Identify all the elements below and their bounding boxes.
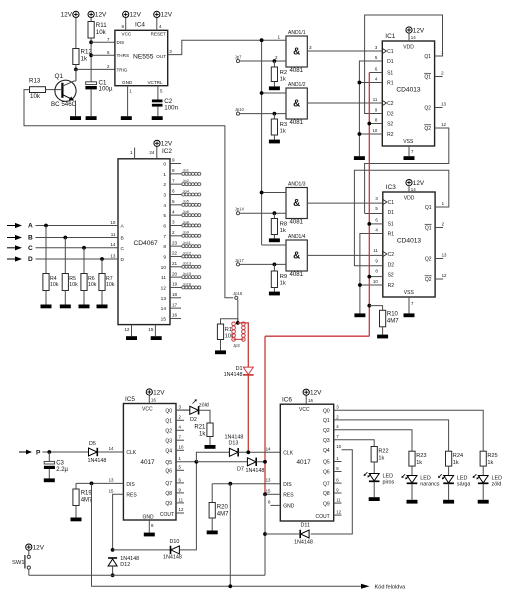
- wire AND1/4 out to IC3 C2: [307, 254, 383, 256]
- wire R11 to C1: [90, 38, 92, 83]
- svg-text:1: 1: [163, 172, 166, 178]
- wire IC2 channel 14 stub: [161, 302, 181, 312]
- wire R10 to ground: [382, 327, 384, 335]
- resistor R23: [409, 451, 427, 466]
- svg-text:7: 7: [172, 178, 175, 183]
- wire red set line vertical: [265, 73, 369, 337]
- node Jp14: [235, 207, 245, 215]
- svg-text:1k: 1k: [280, 76, 286, 82]
- counter IC5 4017: [109, 396, 197, 520]
- wire IC2 pin 24: [149, 147, 156, 159]
- wire R8 tap: [273, 213, 275, 218]
- svg-text:1k: 1k: [487, 460, 493, 466]
- wire IC1 Q2bar to IC3 D1: [365, 128, 449, 214]
- diode D7 1N4148: [237, 458, 264, 474]
- jumper Jp13 channel 10: [161, 261, 201, 271]
- svg-text:Q8: Q8: [165, 491, 172, 497]
- wire R24 to LED: [448, 466, 450, 475]
- wire input A: [36, 220, 125, 230]
- node bus AND1/2: [260, 91, 264, 95]
- svg-text:IC3: IC3: [386, 184, 396, 191]
- capacitor C1: [85, 79, 112, 92]
- flipflop IC3 CD4013: [373, 184, 447, 297]
- svg-text:DIS: DIS: [117, 40, 125, 45]
- svg-text:Jp4: Jp4: [183, 188, 190, 193]
- svg-text:VSS: VSS: [404, 290, 415, 296]
- svg-text:4017: 4017: [140, 459, 155, 466]
- svg-text:6: 6: [163, 223, 166, 229]
- svg-text:Q2: Q2: [424, 126, 431, 132]
- gate AND1/4 4081: [286, 234, 307, 278]
- svg-text:TRIG: TRIG: [117, 67, 128, 72]
- node Jp17: [235, 258, 245, 266]
- svg-text:2.2µ: 2.2µ: [56, 467, 68, 473]
- resistor R4: [43, 274, 59, 291]
- svg-text:9: 9: [172, 158, 175, 163]
- svg-text:1: 1: [130, 150, 133, 155]
- svg-text:4081: 4081: [290, 67, 304, 74]
- resistor R2: [271, 67, 287, 82]
- svg-text:0: 0: [163, 162, 166, 168]
- jumper Jp11 channel 8: [163, 240, 200, 250]
- svg-text:10k: 10k: [88, 282, 97, 288]
- power 12V rail for R11: [88, 11, 107, 18]
- wire R12 to TRIG node: [75, 65, 77, 80]
- svg-text:R2: R2: [388, 283, 395, 289]
- svg-text:12: 12: [442, 273, 447, 278]
- svg-text:100µ: 100µ: [99, 86, 113, 93]
- svg-text:Jp13: Jp13: [183, 261, 192, 266]
- jumper Jp4 channel 3: [163, 188, 200, 198]
- gate AND1/3 4081: [286, 182, 307, 226]
- ground R3: [269, 140, 280, 144]
- svg-text:11: 11: [179, 497, 184, 502]
- svg-text:24: 24: [149, 150, 155, 155]
- resistor R19: [73, 489, 93, 506]
- wire AND1/2 out to IC1 C2: [307, 102, 382, 104]
- svg-text:12: 12: [124, 327, 130, 332]
- wire D7 to red chain: [256, 461, 265, 463]
- svg-text:R7: R7: [106, 276, 113, 282]
- svg-text:Jp15: Jp15: [183, 271, 192, 276]
- svg-text:R2: R2: [280, 70, 288, 76]
- svg-text:Q1: Q1: [55, 73, 64, 80]
- svg-text:NE555: NE555: [133, 54, 154, 61]
- svg-text:Q1: Q1: [424, 75, 431, 81]
- svg-text:1k: 1k: [416, 460, 422, 466]
- wire IC4 OUT pin 3: [168, 40, 286, 54]
- svg-text:Q1: Q1: [425, 205, 432, 211]
- node DIS junction: [89, 40, 93, 44]
- input C arrow: [7, 245, 33, 252]
- LED sárga: [438, 474, 470, 487]
- svg-text:D12: D12: [120, 562, 130, 568]
- ground R5: [60, 305, 71, 309]
- wire Jp10 to gate: [240, 113, 286, 115]
- svg-text:Jp11: Jp11: [183, 240, 192, 245]
- svg-text:12: 12: [441, 122, 446, 127]
- diode D5 1N4148: [88, 441, 107, 464]
- ground R9: [269, 292, 280, 296]
- svg-text:10k: 10k: [30, 93, 41, 100]
- svg-text:100n: 100n: [164, 104, 178, 111]
- ground C3: [44, 478, 55, 482]
- svg-text:&: &: [293, 198, 300, 209]
- svg-text:5: 5: [163, 213, 166, 219]
- svg-text:1: 1: [277, 34, 280, 39]
- node bus AND1/1: [260, 38, 264, 42]
- LED D2 zold: [176, 399, 209, 423]
- wire P to C3: [48, 452, 50, 462]
- LED piros: [364, 472, 395, 485]
- svg-text:4M7: 4M7: [387, 319, 399, 325]
- svg-text:C3: C3: [56, 461, 64, 467]
- wire D10 line: [113, 549, 171, 551]
- wire IC6 to R25: [334, 410, 484, 451]
- svg-text:14: 14: [110, 242, 116, 247]
- svg-text:Q3: Q3: [323, 438, 330, 444]
- resistor R1: [217, 319, 237, 340]
- wire IC2 pin 15 ground: [148, 325, 155, 337]
- svg-text:11: 11: [373, 97, 378, 102]
- svg-text:12V: 12V: [61, 12, 73, 19]
- svg-text:Q5: Q5: [323, 460, 330, 466]
- node Q5 junction: [195, 460, 199, 464]
- resistor R7: [99, 274, 115, 291]
- svg-text:10k: 10k: [106, 282, 115, 288]
- wire D10 to Q5 node: [179, 462, 196, 550]
- svg-text:D10: D10: [170, 539, 180, 545]
- node IC3 R2 junction: [358, 283, 362, 287]
- resistor R11: [88, 22, 107, 39]
- wire Jp14 to gate: [240, 212, 286, 214]
- svg-text:R21: R21: [194, 425, 206, 431]
- wire IC3 VSS pin 7 to ground: [409, 297, 414, 313]
- svg-text:THRS: THRS: [117, 53, 130, 58]
- wire IC6 RES entry: [265, 493, 280, 495]
- wire 12V to R12: [75, 18, 77, 49]
- svg-text:12V: 12V: [161, 12, 173, 19]
- wire C1 to ground: [90, 89, 92, 116]
- svg-text:IC5: IC5: [125, 396, 135, 403]
- wire clock bus vertical: [261, 40, 263, 245]
- wire R2 tap: [273, 61, 275, 67]
- wire R13 left to long run: [24, 90, 233, 298]
- resistor R3: [271, 119, 288, 135]
- resistor R12: [73, 49, 93, 65]
- svg-text:15: 15: [148, 327, 154, 332]
- svg-text:Jp6: Jp6: [183, 209, 190, 214]
- node IC6 DIS junction: [228, 482, 232, 486]
- svg-text:C2: C2: [387, 101, 394, 107]
- ground Q1 emitter: [70, 116, 81, 120]
- wire D12 to SW rail: [112, 566, 114, 575]
- svg-text:1N4148: 1N4148: [225, 434, 244, 440]
- ground R7: [97, 305, 108, 309]
- svg-text:IC6: IC6: [282, 397, 292, 404]
- wire IC4 RESET pin 4: [157, 18, 162, 31]
- svg-text:23: 23: [172, 240, 178, 245]
- svg-text:2: 2: [172, 230, 175, 235]
- svg-text:Q0: Q0: [323, 409, 330, 415]
- svg-text:S2: S2: [388, 273, 394, 279]
- svg-text:12V: 12V: [153, 389, 165, 396]
- node Jp10: [235, 107, 245, 115]
- ground R8: [269, 238, 280, 242]
- wire IC1 VSS pin 7 to ground: [409, 146, 414, 156]
- svg-text:10k: 10k: [50, 282, 59, 288]
- svg-text:15: 15: [109, 488, 114, 493]
- ground R4: [41, 305, 52, 309]
- diode D1 1N4148: [224, 366, 254, 378]
- svg-text:R20: R20: [217, 505, 229, 511]
- wire C2 to ground: [157, 107, 159, 117]
- svg-text:D1: D1: [387, 59, 394, 65]
- svg-text:10: 10: [161, 265, 167, 271]
- jumper Jp2 channel 2: [163, 178, 200, 188]
- wire THRS: [91, 50, 115, 55]
- resistor R5: [62, 274, 78, 291]
- svg-text:14: 14: [161, 306, 167, 312]
- node D11 junction: [263, 532, 267, 536]
- svg-text:11: 11: [336, 498, 341, 503]
- svg-text:10: 10: [373, 279, 378, 284]
- node IC5 DIS junction: [90, 482, 94, 486]
- svg-text:19: 19: [172, 282, 178, 287]
- svg-text:Jp18: Jp18: [233, 291, 243, 296]
- LED zöld: [473, 474, 502, 487]
- svg-text:R1: R1: [225, 327, 232, 333]
- svg-text:R1: R1: [387, 81, 394, 87]
- wire R2 to ground: [273, 82, 275, 87]
- svg-text:10: 10: [110, 220, 116, 225]
- svg-text:C1: C1: [388, 200, 395, 206]
- resistor R8: [271, 219, 288, 235]
- wire IC3 S1 stub: [369, 223, 383, 225]
- gate AND1/2 4081: [286, 82, 307, 126]
- svg-text:1N4148: 1N4148: [246, 468, 265, 474]
- mux IC2 CD4067 box: [118, 148, 172, 325]
- svg-text:13: 13: [110, 253, 116, 258]
- svg-text:OUT: OUT: [156, 54, 166, 59]
- wire 12V to R11: [90, 18, 92, 22]
- svg-text:6: 6: [172, 189, 175, 194]
- svg-text:1k: 1k: [280, 228, 286, 234]
- ground IC5 GND: [144, 533, 155, 537]
- svg-text:B: B: [28, 235, 33, 242]
- svg-text:Q3: Q3: [165, 438, 172, 444]
- power 12V for IC6: [303, 389, 322, 396]
- wire Jp18 down to R1 node: [237, 300, 239, 323]
- svg-text:piros: piros: [383, 479, 395, 485]
- svg-text:C: C: [121, 246, 125, 252]
- svg-text:14: 14: [411, 35, 416, 40]
- wire RES chain down: [264, 494, 266, 575]
- svg-text:R13: R13: [29, 77, 41, 84]
- resistor R20: [209, 503, 229, 519]
- svg-text:1k: 1k: [453, 460, 459, 466]
- wire IC6 DIS line: [212, 483, 280, 485]
- svg-text:1k: 1k: [81, 56, 88, 63]
- svg-text:1N4148: 1N4148: [294, 540, 313, 546]
- node input D junction: [100, 257, 104, 261]
- svg-text:5: 5: [172, 199, 175, 204]
- diode D12 1N4148: [108, 556, 139, 568]
- power 12V for IC4 RESET: [154, 11, 173, 18]
- svg-text:Q9: Q9: [323, 501, 330, 507]
- svg-text:Jp8: Jp8: [183, 219, 190, 224]
- svg-text:1k: 1k: [280, 280, 286, 286]
- node DIS rail junction: [228, 584, 232, 588]
- svg-text:10: 10: [336, 444, 341, 449]
- node R8 junction: [273, 211, 277, 215]
- jumper Jp8 channel 6: [163, 219, 200, 229]
- svg-text:13: 13: [109, 478, 114, 483]
- ground IC1 R1R2: [354, 156, 365, 160]
- node P junction: [47, 450, 51, 454]
- svg-text:IC4: IC4: [135, 21, 145, 28]
- wire AND1/3 out to IC3 C1: [307, 202, 383, 204]
- wire IC4 VCTRL pin 5: [158, 86, 163, 100]
- node D7 red junction: [263, 460, 267, 464]
- wire IC3 R1 R2 to ground: [360, 234, 383, 314]
- node R3 junction: [273, 112, 277, 116]
- wire input D: [36, 253, 125, 263]
- wire R20 to ground: [211, 518, 213, 531]
- ground IC4 GND: [121, 116, 132, 120]
- svg-text:21: 21: [172, 261, 178, 266]
- wire IC1 D1 to R1 R2 ground: [359, 61, 382, 156]
- svg-text:VCC: VCC: [122, 32, 132, 37]
- node Jp18: [233, 291, 243, 299]
- svg-text:R6: R6: [88, 276, 95, 282]
- resistor R13: [29, 77, 46, 100]
- wire input B: [36, 232, 124, 242]
- svg-text:Jp16: Jp16: [183, 281, 192, 286]
- svg-text:COUT: COUT: [160, 512, 174, 518]
- svg-text:R4: R4: [50, 276, 57, 282]
- wire IC1 S1 stub: [369, 72, 382, 74]
- svg-text:AND1/2: AND1/2: [288, 82, 306, 88]
- svg-text:12: 12: [336, 509, 341, 514]
- svg-text:CLK: CLK: [126, 450, 136, 456]
- ground R10: [377, 335, 388, 339]
- wire R19 drop: [75, 483, 77, 489]
- node CLK red junction: [246, 450, 250, 454]
- svg-text:S1: S1: [388, 222, 394, 228]
- resistor R9: [271, 271, 287, 288]
- svg-text:12V: 12V: [161, 141, 173, 148]
- svg-text:RESET: RESET: [151, 32, 167, 37]
- svg-text:Q0: Q0: [165, 408, 172, 414]
- diode D13 1N4148: [225, 434, 244, 456]
- svg-text:Q1: Q1: [424, 54, 431, 60]
- wire Q1 emitter to ground: [75, 101, 77, 117]
- wire Q1 collector: [75, 69, 77, 81]
- svg-text:18: 18: [172, 292, 178, 297]
- svg-text:VDD: VDD: [403, 45, 414, 51]
- svg-text:4081: 4081: [290, 219, 304, 226]
- counter IC6 4017: [266, 397, 342, 521]
- wire IC6 Q4 to D11: [311, 450, 353, 534]
- svg-text:10: 10: [372, 128, 377, 133]
- wire R21 to ground: [209, 437, 211, 446]
- LED narancs: [401, 474, 439, 487]
- wire B to pulldown: [64, 238, 66, 274]
- wire Q5 to D13 jog: [196, 452, 229, 462]
- ground IC2 pin12: [126, 336, 137, 340]
- svg-text:B: B: [121, 236, 124, 242]
- svg-text:S2: S2: [387, 122, 393, 128]
- svg-text:16: 16: [308, 398, 313, 403]
- svg-text:9: 9: [163, 254, 166, 260]
- node THRS junction: [89, 53, 93, 57]
- svg-text:Q7: Q7: [165, 481, 172, 487]
- wire IC2 channel 13 stub: [161, 292, 181, 302]
- svg-text:13: 13: [161, 296, 167, 302]
- wire IC6 DIS to output rail: [229, 484, 231, 587]
- svg-text:Q5: Q5: [165, 460, 172, 466]
- svg-text:Jp1: Jp1: [183, 168, 190, 173]
- svg-text:R1: R1: [388, 232, 395, 238]
- ground IC1 VSS: [404, 156, 415, 160]
- svg-text:C: C: [28, 245, 33, 252]
- ground LED sárga: [443, 500, 454, 504]
- wire Jp17 to gate: [240, 263, 286, 265]
- wire bus to AND1/2 in1: [262, 92, 286, 94]
- wire IC5 VCC pin 16: [149, 395, 156, 403]
- capacitor C2: [152, 98, 179, 111]
- svg-text:2: 2: [163, 182, 166, 188]
- wire IC1 VDD pin 14: [409, 33, 416, 41]
- wire IC3 Q1 feedback to D2: [354, 170, 448, 266]
- svg-text:10: 10: [179, 445, 184, 450]
- svg-text:R24: R24: [453, 453, 463, 459]
- power 12V rail for R12: [61, 11, 79, 18]
- node Jp7: [235, 54, 242, 62]
- wire C to pulldown: [83, 248, 85, 274]
- svg-text:22: 22: [172, 251, 178, 256]
- wire D13 to IC6 CLK: [238, 451, 280, 453]
- wire IC2 channel 15 stub: [161, 313, 181, 323]
- node IC1 R2 junction: [358, 132, 362, 136]
- svg-text:1N4148: 1N4148: [224, 372, 243, 378]
- svg-text:AND1/4: AND1/4: [288, 234, 306, 240]
- svg-text:4: 4: [163, 203, 166, 209]
- svg-text:AND1/1: AND1/1: [288, 30, 306, 36]
- input D arrow: [7, 256, 33, 263]
- svg-text:VCC: VCC: [142, 407, 153, 413]
- svg-text:D2: D2: [388, 263, 395, 269]
- svg-text:12V: 12V: [413, 180, 425, 187]
- svg-text:Q4: Q4: [165, 449, 172, 455]
- wire LED narancs to ground: [411, 484, 413, 500]
- svg-text:4M7: 4M7: [217, 512, 229, 518]
- wire IC5 GND pin 8: [149, 520, 154, 533]
- ground IC3 VSS: [404, 313, 415, 317]
- wire IC2 channel 0 stub: [163, 158, 181, 168]
- flipflop IC1 CD4013: [372, 33, 446, 146]
- svg-text:D11: D11: [301, 523, 311, 529]
- resistor R25: [480, 451, 498, 466]
- ground R21: [205, 445, 216, 449]
- wire D1 to CLK node: [247, 375, 249, 453]
- svg-text:13: 13: [442, 253, 447, 258]
- svg-text:Q2: Q2: [425, 277, 432, 283]
- wire IC5 RES path: [113, 494, 124, 550]
- wire R3 to ground: [273, 135, 275, 140]
- output arrow Kod feloldva: [361, 584, 406, 591]
